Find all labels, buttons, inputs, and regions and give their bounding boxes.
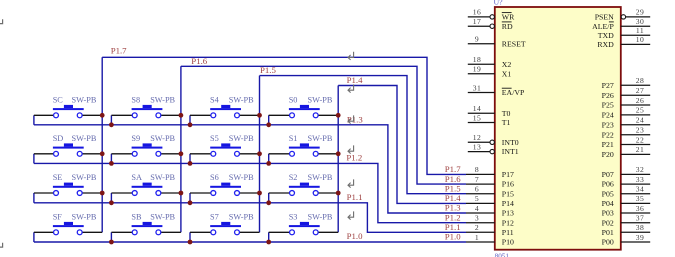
junction bus P1.0 bracket col 2 (109, 240, 114, 245)
junction bus P1.1 bracket col 2 (109, 200, 114, 205)
no-ERC hook marker at y=216.0 (348, 211, 354, 219)
svg-text:S7: S7 (210, 212, 219, 221)
svg-text:P1.4: P1.4 (347, 75, 363, 85)
svg-text:12: 12 (473, 133, 482, 142)
svg-text:SW-PB: SW-PB (72, 134, 97, 143)
pin 9 RESET (left) (468, 35, 526, 49)
junction bus P1.2 bracket col 2 (109, 161, 114, 166)
switch SB (SW-PB) row 4 col 2 (111, 212, 180, 242)
pin 26 P25 (right) (602, 96, 651, 110)
switch SE (SW-PB) row 3 col 1 (34, 173, 102, 203)
pin 2 P11 (left) (466, 223, 514, 237)
svg-text:SW-PB: SW-PB (150, 173, 175, 182)
no-ERC hook marker at y=56.3 (348, 52, 354, 60)
svg-text:S1: S1 (289, 134, 298, 143)
wire net P1.7 from column 1 to pin (102, 57, 466, 174)
svg-text:37: 37 (636, 214, 645, 223)
svg-text:21: 21 (636, 145, 645, 154)
pin 30 ALE/P (right) (592, 17, 650, 31)
svg-text:SW-PB: SW-PB (308, 173, 333, 182)
svg-text:U?: U? (494, 0, 504, 7)
svg-text:SW-PB: SW-PB (229, 212, 254, 221)
no-ERC hook marker at y=120.0 (348, 115, 354, 123)
no-ERC hook marker at y=184.0 (348, 179, 354, 187)
wire net P1.4 from column 4 to pin (338, 86, 466, 204)
svg-text:SW-PB: SW-PB (229, 173, 254, 182)
edge mark top-left (0, 19, 3, 23)
pin 13 INT1 (left) (468, 142, 519, 156)
pin 12 INT0 (left) (468, 133, 519, 147)
wire net P1.6 from column 2 to pin (181, 66, 466, 184)
svg-text:P01: P01 (602, 228, 614, 237)
svg-text:P21: P21 (602, 140, 614, 149)
svg-text:24: 24 (636, 116, 645, 125)
switch S5 (SW-PB) row 2 col 3 (190, 134, 260, 164)
svg-text:P25: P25 (602, 101, 614, 110)
svg-text:28: 28 (636, 76, 645, 85)
svg-text:1: 1 (475, 233, 479, 242)
pin 27 P26 (right) (602, 86, 651, 100)
pin 24 P23 (right) (602, 116, 651, 130)
svg-text:SE: SE (53, 173, 63, 182)
svg-text:S5: S5 (210, 134, 219, 143)
switch S8 (SW-PB) row 1 col 2 (111, 95, 180, 124)
svg-text:WR: WR (502, 13, 515, 22)
microcontroller U? (8051) body (495, 7, 621, 250)
svg-text:P00: P00 (602, 238, 614, 247)
pin 3 P12 (left) (466, 214, 514, 228)
svg-text:P07: P07 (602, 170, 614, 179)
svg-text:29: 29 (636, 8, 645, 17)
svg-text:SW-PB: SW-PB (72, 173, 97, 182)
svg-text:34: 34 (636, 185, 645, 194)
svg-text:SC: SC (53, 95, 64, 104)
svg-text:P24: P24 (602, 111, 614, 120)
switch SF (SW-PB) row 4 col 1 (34, 212, 102, 242)
junction col 4 row 2 (336, 151, 341, 156)
svg-text:P1.6: P1.6 (445, 174, 461, 184)
pin 28 P27 (right) (602, 76, 651, 90)
svg-text:P12: P12 (502, 218, 514, 227)
svg-text:P27: P27 (602, 81, 614, 90)
svg-text:P06: P06 (602, 180, 614, 189)
svg-text:P04: P04 (602, 199, 614, 208)
svg-text:P1.2: P1.2 (346, 153, 362, 163)
junction col 1 row 3 (100, 191, 105, 196)
pin 4 P13 (left) (466, 204, 514, 218)
switch S7 (SW-PB) row 4 col 3 (190, 212, 260, 242)
no-ERC hook marker at y=150.0 (348, 145, 354, 153)
svg-text:SW-PB: SW-PB (72, 212, 97, 221)
pin 21 P20 (right) (602, 145, 651, 159)
svg-text:X2: X2 (502, 60, 512, 69)
svg-text:PSEN: PSEN (595, 13, 614, 22)
svg-text:P1.1: P1.1 (347, 192, 363, 202)
svg-text:S2: S2 (289, 173, 298, 182)
svg-text:SB: SB (131, 212, 142, 221)
switch S1 (SW-PB) row 2 col 4 (269, 134, 339, 164)
svg-text:SA: SA (131, 173, 142, 182)
svg-text:P11: P11 (502, 228, 514, 237)
svg-text:17: 17 (473, 17, 482, 26)
junction col 3 row 2 (257, 151, 262, 156)
svg-text:SW-PB: SW-PB (308, 95, 333, 104)
pin 34 P05 (right) (602, 185, 651, 199)
pin 35 P04 (right) (602, 194, 651, 208)
svg-text:P05: P05 (602, 189, 614, 198)
junction bus P1.3 bracket col 4 (266, 122, 271, 127)
junction bus P1.0 bracket col 3 (188, 240, 193, 245)
wire column 3 vertical (P1.5) (259, 76, 261, 233)
pin 36 P03 (right) (602, 204, 651, 218)
svg-text:18: 18 (473, 55, 482, 64)
junction bus P1.2 bracket col 3 (188, 161, 193, 166)
svg-text:SF: SF (53, 212, 63, 221)
wire row bus P1.0 (34, 241, 466, 243)
svg-text:27: 27 (636, 86, 645, 95)
junction col 2 row 3 (179, 191, 184, 196)
svg-text:S3: S3 (289, 212, 298, 221)
svg-text:S4: S4 (210, 95, 220, 104)
svg-text:26: 26 (636, 96, 645, 105)
junction bus P1.1 bracket col 4 (266, 200, 271, 205)
svg-text:8051: 8051 (495, 252, 510, 257)
switch S6 (SW-PB) row 3 col 3 (190, 173, 260, 203)
pin 33 P06 (right) (602, 175, 651, 189)
junction bus P1.2 bracket col 4 (266, 161, 271, 166)
svg-text:35: 35 (636, 194, 645, 203)
svg-text:25: 25 (636, 106, 645, 115)
pin 5 P14 (left) (466, 194, 514, 208)
pin 11 TXD (right) (598, 26, 650, 40)
pin 18 X2 (left) (468, 55, 512, 69)
svg-text:36: 36 (636, 204, 645, 213)
svg-text:P1.0: P1.0 (445, 232, 461, 242)
svg-text:SD: SD (53, 134, 64, 143)
svg-text:38: 38 (636, 223, 645, 232)
svg-text:SW-PB: SW-PB (72, 95, 97, 104)
pin 7 P16 (left) (466, 175, 514, 189)
switch S3 (SW-PB) row 4 col 4 (269, 212, 339, 242)
switch SD (SW-PB) row 2 col 1 (34, 134, 102, 164)
svg-text:P03: P03 (602, 209, 614, 218)
svg-text:23: 23 (636, 126, 645, 135)
pin 23 P22 (right) (602, 126, 651, 140)
pin 32 P07 (right) (602, 165, 651, 179)
svg-text:SW-PB: SW-PB (308, 134, 333, 143)
pin 37 P02 (right) (602, 214, 651, 228)
svg-text:INT0: INT0 (502, 138, 519, 147)
switch S4 (SW-PB) row 1 col 3 (190, 95, 260, 124)
svg-text:TXD: TXD (598, 31, 614, 40)
svg-text:P1.5: P1.5 (445, 183, 461, 193)
switch S9 (SW-PB) row 2 col 2 (111, 134, 180, 164)
svg-text:P1.2: P1.2 (445, 212, 461, 222)
svg-text:3: 3 (475, 214, 479, 223)
junction col 1 row 1 (100, 113, 105, 118)
svg-text:P13: P13 (502, 209, 514, 218)
svg-text:30: 30 (636, 17, 645, 26)
svg-text:P10: P10 (502, 238, 514, 247)
wire row bus P1.3 (34, 125, 466, 213)
pin 6 P15 (left) (466, 185, 514, 199)
svg-text:RESET: RESET (502, 39, 526, 48)
wire row bus P1.2 (34, 163, 466, 222)
svg-text:32: 32 (636, 165, 645, 174)
switch S2 (SW-PB) row 3 col 4 (269, 173, 339, 203)
pin 1 P10 (left) (466, 233, 514, 247)
junction col 3 row 3 (257, 191, 262, 196)
junction col 4 row 1 (336, 113, 341, 118)
wire row bus P1.1 (34, 203, 466, 233)
svg-text:P1.7: P1.7 (111, 46, 127, 56)
svg-text:P16: P16 (502, 180, 514, 189)
svg-text:S8: S8 (131, 95, 140, 104)
svg-text:15: 15 (473, 113, 482, 122)
svg-text:EA/VP: EA/VP (502, 88, 525, 97)
junction bus P1.3 bracket col 3 (188, 122, 193, 127)
svg-text:P1.6: P1.6 (191, 56, 207, 66)
svg-text:INT1: INT1 (502, 147, 519, 156)
svg-text:P1.3: P1.3 (445, 203, 461, 213)
junction col 2 row 1 (179, 113, 184, 118)
svg-text:13: 13 (473, 142, 482, 151)
svg-text:33: 33 (636, 175, 645, 184)
svg-text:ALE/P: ALE/P (592, 22, 614, 31)
svg-text:16: 16 (473, 8, 482, 17)
junction col 1 row 2 (100, 151, 105, 156)
svg-text:SW-PB: SW-PB (150, 95, 175, 104)
svg-text:10: 10 (636, 35, 645, 44)
pin 29 PSEN (right) (595, 8, 650, 22)
switch SC (SW-PB) row 1 col 1 (34, 95, 102, 124)
svg-text:S6: S6 (210, 173, 219, 182)
svg-text:6: 6 (475, 185, 479, 194)
svg-text:7: 7 (475, 175, 479, 184)
svg-text:SW-PB: SW-PB (229, 95, 254, 104)
junction bus P1.0 bracket col 4 (266, 240, 271, 245)
svg-text:19: 19 (473, 65, 482, 74)
svg-text:SW-PB: SW-PB (150, 134, 175, 143)
svg-text:S0: S0 (289, 95, 298, 104)
svg-text:P14: P14 (502, 199, 514, 208)
svg-text:P23: P23 (602, 120, 614, 129)
wire net P1.5 from column 3 to pin (260, 76, 467, 194)
pin 16 WR (left) (468, 8, 515, 22)
svg-text:8: 8 (475, 165, 479, 174)
svg-text:22: 22 (636, 135, 645, 144)
svg-text:9: 9 (475, 35, 479, 44)
junction col 4 row 3 (336, 191, 341, 196)
svg-text:P15: P15 (502, 189, 514, 198)
svg-text:X1: X1 (502, 69, 512, 78)
svg-text:P1.0: P1.0 (347, 231, 363, 241)
svg-text:P02: P02 (602, 218, 614, 227)
svg-text:SW-PB: SW-PB (308, 212, 333, 221)
svg-text:P1.7: P1.7 (445, 164, 461, 174)
pin 15 T1 (left) (468, 113, 511, 127)
svg-text:P17: P17 (502, 170, 514, 179)
pin 39 P00 (right) (602, 233, 651, 247)
junction bus P1.3 bracket col 2 (109, 122, 114, 127)
svg-text:14: 14 (473, 104, 482, 113)
svg-text:P26: P26 (602, 91, 614, 100)
svg-text:P1.5: P1.5 (260, 65, 276, 75)
pin 17 RD (left) (468, 17, 513, 31)
wire column 4 vertical (P1.4) (337, 86, 339, 233)
pin 25 P24 (right) (602, 106, 651, 120)
svg-text:11: 11 (636, 26, 644, 35)
svg-text:P1.4: P1.4 (445, 193, 461, 203)
junction bus P1.1 bracket col 3 (188, 200, 193, 205)
svg-text:P20: P20 (602, 150, 614, 159)
pin 22 P21 (right) (602, 135, 651, 149)
svg-text:RD: RD (502, 22, 513, 31)
svg-text:SW-PB: SW-PB (150, 212, 175, 221)
svg-text:P22: P22 (602, 130, 614, 139)
svg-text:T1: T1 (502, 118, 511, 127)
pin 14 T0 (left) (468, 104, 511, 118)
pin 38 P01 (right) (602, 223, 651, 237)
svg-text:T0: T0 (502, 109, 511, 118)
svg-text:S9: S9 (131, 134, 140, 143)
svg-text:SW-PB: SW-PB (229, 134, 254, 143)
svg-text:2: 2 (475, 223, 479, 232)
pin 19 X1 (left) (468, 65, 512, 79)
switch SA (SW-PB) row 3 col 2 (111, 173, 180, 203)
junction col 2 row 2 (179, 151, 184, 156)
svg-text:5: 5 (475, 194, 479, 203)
switch S0 (SW-PB) row 1 col 4 (269, 95, 339, 124)
edge mark bottom-left (0, 243, 3, 247)
wire column 2 vertical (P1.6) (180, 66, 182, 232)
svg-text:4: 4 (475, 204, 479, 213)
svg-text:31: 31 (473, 83, 482, 92)
pin 10 RXD (right) (597, 35, 650, 49)
pin 31 EA/VP (left) (468, 83, 525, 97)
wire column 1 vertical (P1.7) (101, 57, 103, 232)
pin 8 P17 (left) (466, 165, 514, 179)
no-ERC hook marker at y=89.0 (348, 84, 354, 92)
svg-text:P1.1: P1.1 (445, 222, 461, 232)
svg-text:39: 39 (636, 233, 645, 242)
svg-text:RXD: RXD (597, 40, 614, 49)
junction col 3 row 1 (257, 113, 262, 118)
